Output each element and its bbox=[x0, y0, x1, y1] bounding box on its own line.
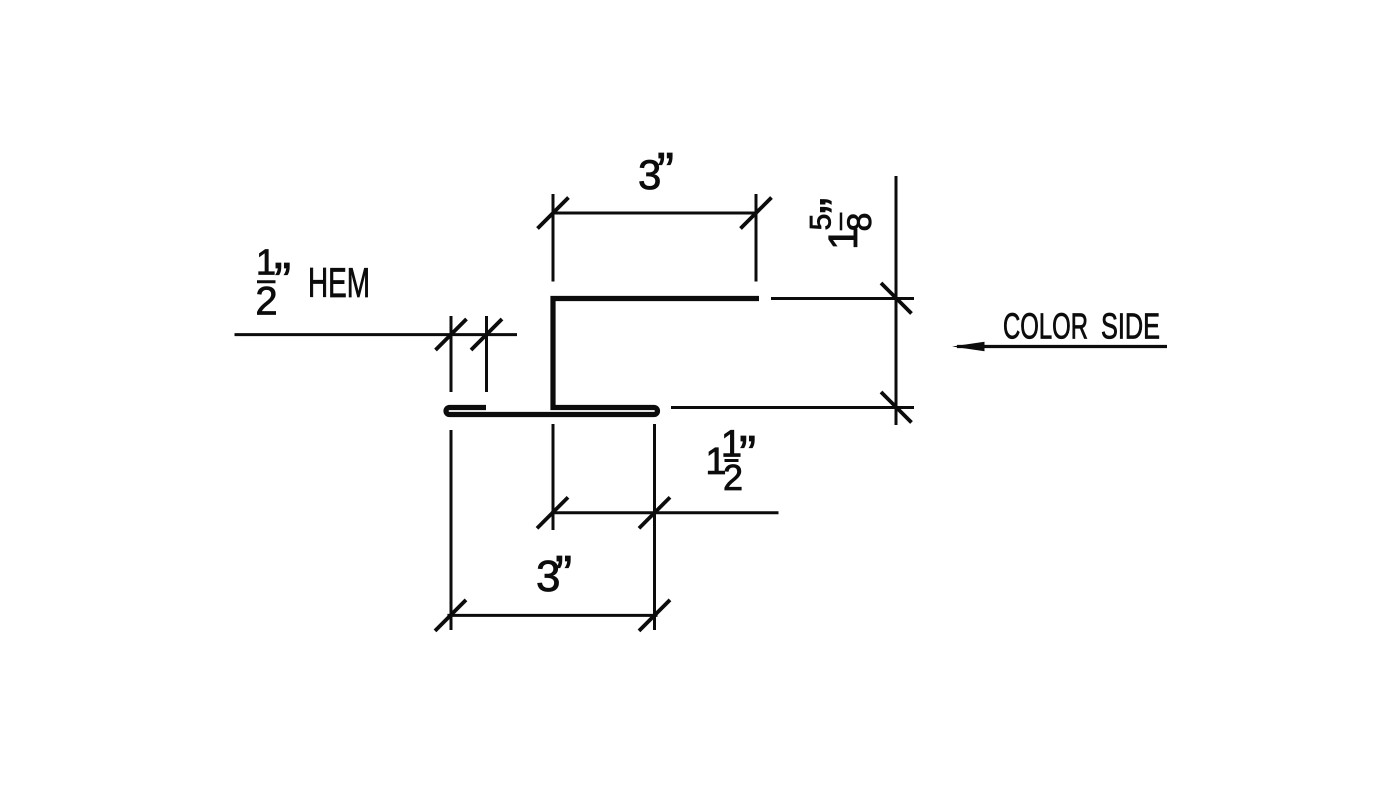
svg-text:8: 8 bbox=[841, 213, 879, 232]
svg-text:”: ” bbox=[657, 143, 674, 201]
svg-text:”: ” bbox=[739, 426, 756, 484]
svg-text:5: 5 bbox=[805, 214, 838, 231]
svg-text:HEM: HEM bbox=[308, 259, 370, 306]
svg-text:COLOR: COLOR bbox=[1003, 306, 1088, 347]
svg-text:SIDE: SIDE bbox=[1101, 306, 1160, 347]
svg-text:”: ” bbox=[555, 546, 572, 604]
svg-text:”: ” bbox=[274, 253, 291, 311]
svg-text:”: ” bbox=[812, 198, 865, 214]
